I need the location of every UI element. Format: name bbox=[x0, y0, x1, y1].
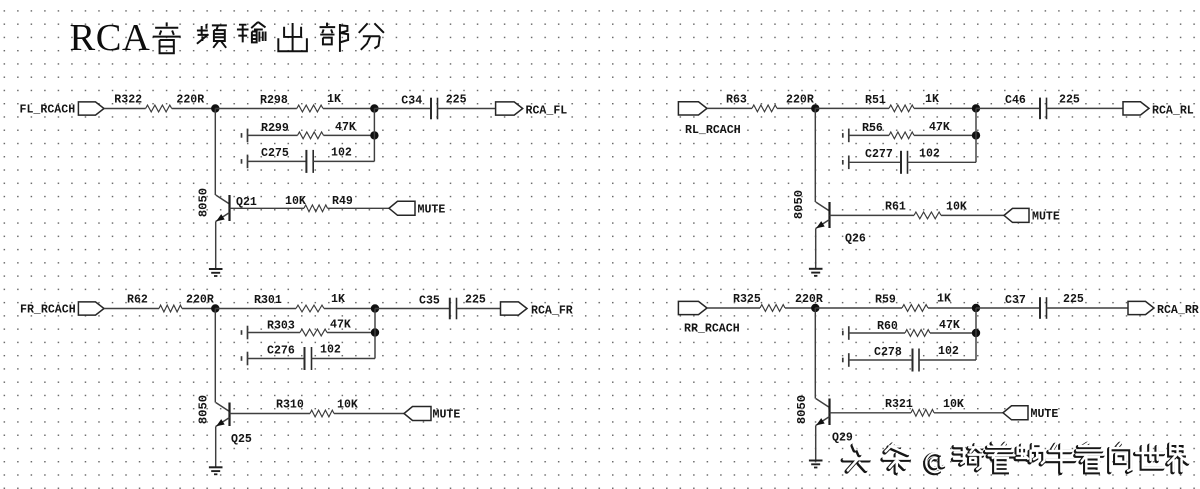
svg-text:MUTE: MUTE bbox=[1031, 408, 1059, 421]
stub terminal of R299 bbox=[242, 129, 248, 143]
wire bbox=[849, 134, 889, 136]
wire bbox=[248, 332, 301, 334]
wire bbox=[215, 108, 296, 110]
input port FR_RCACH bbox=[78, 302, 104, 315]
output port RCA_FL bbox=[496, 102, 523, 115]
svg-text:C275: C275 bbox=[261, 147, 289, 160]
svg-text:102: 102 bbox=[320, 344, 341, 357]
svg-text:C276: C276 bbox=[267, 344, 295, 357]
capacitor C46 bbox=[1040, 98, 1047, 120]
resistor R301 bbox=[296, 305, 324, 312]
resistor R322 bbox=[146, 105, 172, 112]
svg-text:47K: 47K bbox=[335, 121, 356, 134]
wire bbox=[814, 308, 816, 399]
svg-text:220R: 220R bbox=[186, 294, 214, 307]
node feedback junction bbox=[972, 131, 980, 139]
svg-text:R322: R322 bbox=[114, 94, 142, 107]
port MUTE bbox=[389, 201, 415, 215]
output port RCA_FR bbox=[501, 302, 528, 315]
stub terminal of R60 bbox=[843, 326, 849, 340]
wire bbox=[914, 134, 976, 136]
resistor R51 bbox=[889, 105, 914, 112]
svg-text:R49: R49 bbox=[332, 195, 353, 208]
svg-text:C34: C34 bbox=[401, 94, 422, 107]
svg-text:R63: R63 bbox=[726, 94, 747, 107]
svg-text:C37: C37 bbox=[1005, 294, 1026, 307]
input port RR_RCACH bbox=[678, 301, 707, 314]
wire bbox=[215, 427, 217, 468]
node base-drive junction bbox=[211, 104, 219, 112]
stub terminal of R303 bbox=[242, 326, 248, 340]
wire bbox=[815, 107, 889, 109]
wire bbox=[975, 108, 977, 162]
capacitor C35 bbox=[450, 298, 457, 320]
svg-text:47K: 47K bbox=[330, 318, 351, 331]
wire bbox=[934, 412, 1003, 414]
svg-text:225: 225 bbox=[446, 94, 467, 107]
wire bbox=[941, 214, 1004, 216]
svg-text:FL_RCACH: FL_RCACH bbox=[20, 103, 76, 116]
svg-text:R310: R310 bbox=[276, 399, 304, 412]
transistor Q21 bbox=[216, 195, 230, 222]
port MUTE bbox=[1004, 208, 1029, 222]
wire bbox=[928, 307, 976, 309]
input port FL_RCACH bbox=[78, 102, 104, 115]
node base-drive junction bbox=[811, 304, 819, 312]
svg-text:Q26: Q26 bbox=[845, 233, 866, 246]
svg-text:R56: R56 bbox=[862, 122, 883, 135]
capacitor C276 bbox=[305, 347, 312, 370]
watermark toutiao @qizhewoniukanxiangshijie bbox=[843, 443, 1188, 474]
wire bbox=[248, 134, 298, 136]
capacitor C275 bbox=[306, 150, 313, 173]
wire bbox=[976, 307, 1040, 309]
wire bbox=[230, 413, 311, 415]
svg-text:MUTE: MUTE bbox=[418, 204, 446, 217]
wire bbox=[908, 161, 977, 163]
wire bbox=[374, 309, 376, 359]
capacitor C37 bbox=[1040, 297, 1047, 319]
resistor R63 bbox=[752, 105, 777, 112]
svg-text:10K: 10K bbox=[337, 399, 358, 412]
wire bbox=[104, 308, 159, 310]
stub terminal of C276 bbox=[242, 352, 248, 366]
wire bbox=[1047, 307, 1129, 309]
wire bbox=[457, 308, 501, 310]
svg-text:C277: C277 bbox=[865, 148, 893, 161]
svg-text:102: 102 bbox=[938, 345, 959, 358]
svg-text:C46: C46 bbox=[1005, 94, 1026, 107]
svg-text:C278: C278 bbox=[874, 346, 902, 359]
svg-text:RL_RCACH: RL_RCACH bbox=[685, 124, 741, 137]
wire bbox=[849, 359, 913, 361]
svg-text:RCA_RL: RCA_RL bbox=[1152, 105, 1194, 118]
svg-text:R62: R62 bbox=[127, 294, 148, 307]
svg-text:Q29: Q29 bbox=[832, 432, 853, 445]
svg-text:10K: 10K bbox=[946, 201, 967, 214]
ground bbox=[809, 269, 823, 276]
wire bbox=[182, 308, 215, 310]
wire bbox=[707, 307, 760, 309]
resistor R49 bbox=[304, 205, 328, 212]
resistor R61 bbox=[914, 212, 941, 219]
node collector junction bbox=[972, 304, 980, 312]
node feedback junction bbox=[972, 329, 980, 337]
svg-text:10K: 10K bbox=[285, 195, 306, 208]
port MUTE bbox=[1003, 406, 1028, 420]
wire bbox=[815, 229, 817, 269]
svg-text:102: 102 bbox=[331, 146, 352, 159]
svg-text:R303: R303 bbox=[267, 319, 295, 332]
svg-text:MUTE: MUTE bbox=[1032, 211, 1060, 224]
node feedback junction bbox=[370, 131, 378, 139]
wire bbox=[215, 222, 217, 270]
wire bbox=[785, 307, 815, 309]
wire bbox=[214, 309, 216, 403]
transistor Q25 bbox=[216, 403, 230, 427]
wire bbox=[248, 160, 307, 162]
ground bbox=[209, 467, 223, 474]
svg-text:225: 225 bbox=[1059, 93, 1080, 106]
wire bbox=[919, 359, 976, 361]
svg-text:47K: 47K bbox=[939, 319, 960, 332]
title text RCA audio output section bbox=[70, 17, 384, 59]
resistor R303 bbox=[300, 329, 327, 336]
svg-text:Q21: Q21 bbox=[236, 196, 257, 209]
svg-text:RR_RCACH: RR_RCACH bbox=[684, 323, 740, 336]
wire bbox=[930, 332, 976, 334]
wire bbox=[830, 214, 915, 216]
svg-text:R321: R321 bbox=[885, 398, 913, 411]
node collector junction bbox=[972, 104, 980, 112]
output port RCA_RR bbox=[1128, 301, 1154, 314]
svg-text:220R: 220R bbox=[176, 94, 204, 107]
svg-text:R298: R298 bbox=[260, 94, 288, 107]
wire bbox=[375, 308, 450, 310]
node base-drive junction bbox=[811, 104, 819, 112]
svg-text:MUTE: MUTE bbox=[433, 409, 461, 422]
wire bbox=[327, 332, 375, 334]
stub terminal of C277 bbox=[843, 156, 849, 170]
resistor R321 bbox=[911, 409, 934, 416]
svg-text:8050: 8050 bbox=[792, 190, 806, 219]
wire bbox=[975, 308, 977, 360]
wire bbox=[214, 109, 216, 196]
stub terminal of C275 bbox=[242, 155, 248, 169]
wire bbox=[830, 412, 912, 414]
resistor R59 bbox=[902, 305, 928, 312]
transistor Q26 bbox=[816, 202, 830, 229]
svg-text:Q25: Q25 bbox=[231, 433, 252, 446]
wire bbox=[312, 358, 376, 360]
resistor R310 bbox=[310, 410, 334, 417]
wire bbox=[248, 358, 305, 360]
resistor R298 bbox=[297, 105, 323, 112]
svg-text:R325: R325 bbox=[733, 293, 761, 306]
svg-text:1K: 1K bbox=[937, 292, 951, 305]
wire bbox=[373, 109, 375, 162]
wire bbox=[814, 108, 816, 202]
wire bbox=[777, 107, 815, 109]
resistor R56 bbox=[889, 132, 914, 139]
capacitor C34 bbox=[431, 98, 438, 120]
wire bbox=[815, 307, 902, 309]
node collector junction bbox=[371, 304, 379, 312]
svg-text:R51: R51 bbox=[865, 94, 886, 107]
svg-text:RCA: RCA bbox=[70, 17, 151, 59]
wire bbox=[849, 161, 901, 163]
svg-text:220R: 220R bbox=[786, 93, 814, 106]
ground bbox=[809, 461, 823, 468]
node base-drive junction bbox=[211, 304, 219, 312]
ground bbox=[209, 269, 223, 276]
wire bbox=[438, 108, 496, 110]
wire bbox=[707, 107, 752, 109]
svg-text:225: 225 bbox=[465, 294, 486, 307]
svg-text:1K: 1K bbox=[331, 293, 345, 306]
svg-text:R60: R60 bbox=[877, 320, 898, 333]
svg-text:1K: 1K bbox=[327, 93, 341, 106]
wire bbox=[323, 108, 374, 110]
svg-text:RCA_RR: RCA_RR bbox=[1157, 304, 1199, 317]
capacitor C277 bbox=[901, 151, 908, 174]
svg-text:R299: R299 bbox=[261, 122, 289, 135]
wire bbox=[914, 107, 976, 109]
wire bbox=[324, 134, 375, 136]
wire bbox=[104, 108, 146, 110]
resistor R60 bbox=[905, 330, 930, 337]
wire bbox=[374, 108, 431, 110]
wire bbox=[849, 332, 905, 334]
transistor Q29 bbox=[816, 399, 830, 426]
svg-text:RCA_FR: RCA_FR bbox=[531, 305, 573, 318]
node feedback junction bbox=[371, 328, 379, 336]
svg-text:102: 102 bbox=[919, 147, 940, 160]
svg-text:10K: 10K bbox=[943, 398, 964, 411]
capacitor C278 bbox=[913, 349, 920, 372]
wire bbox=[172, 108, 216, 110]
svg-text:1K: 1K bbox=[925, 93, 939, 106]
svg-text:R301: R301 bbox=[254, 294, 282, 307]
input port RL_RCACH bbox=[678, 102, 707, 115]
svg-text:8050: 8050 bbox=[196, 395, 210, 424]
svg-text:8050: 8050 bbox=[196, 188, 210, 217]
wire bbox=[334, 413, 404, 415]
wire bbox=[324, 308, 375, 310]
svg-text:225: 225 bbox=[1063, 293, 1084, 306]
wire bbox=[328, 207, 390, 209]
wire bbox=[815, 426, 817, 461]
svg-text:FR_RCACH: FR_RCACH bbox=[20, 304, 76, 317]
node collector junction bbox=[370, 104, 378, 112]
wire bbox=[215, 308, 296, 310]
svg-text:R61: R61 bbox=[885, 201, 906, 214]
wire bbox=[976, 107, 1040, 109]
stub terminal of R56 bbox=[843, 129, 849, 143]
svg-text:47K: 47K bbox=[929, 121, 950, 134]
stub terminal of C278 bbox=[843, 353, 849, 367]
wire bbox=[230, 207, 305, 209]
resistor R325 bbox=[760, 305, 785, 312]
svg-text:R59: R59 bbox=[875, 294, 896, 307]
wire bbox=[313, 160, 374, 162]
svg-text:8050: 8050 bbox=[795, 395, 809, 424]
svg-text:RCA_FL: RCA_FL bbox=[526, 105, 568, 118]
wire bbox=[1047, 107, 1124, 109]
resistor R62 bbox=[159, 305, 182, 312]
svg-text:220R: 220R bbox=[795, 293, 823, 306]
port MUTE bbox=[404, 407, 431, 421]
output port RCA_RL bbox=[1123, 102, 1149, 115]
svg-text:C35: C35 bbox=[419, 294, 440, 307]
resistor R299 bbox=[298, 132, 324, 139]
